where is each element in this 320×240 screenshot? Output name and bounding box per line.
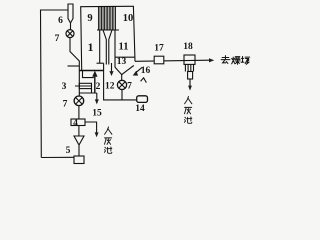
svg-text:11: 11 [119,42,129,53]
svg-text:4: 4 [73,118,78,128]
svg-text:13: 13 [117,57,127,67]
svg-text:14: 14 [135,104,145,114]
svg-text:17: 17 [154,43,164,53]
svg-text:7: 7 [63,99,68,109]
svg-text:18: 18 [183,42,193,52]
svg-text:16: 16 [141,66,151,76]
svg-text:3: 3 [62,82,67,92]
svg-text:6: 6 [58,16,63,26]
svg-text:7: 7 [55,34,60,44]
svg-text:5: 5 [66,146,71,156]
svg-text:10: 10 [123,13,134,24]
svg-text:2: 2 [96,82,101,92]
svg-text:7: 7 [127,81,132,91]
svg-text:15: 15 [92,108,102,118]
svg-text:12: 12 [105,81,115,91]
svg-text:1: 1 [88,40,94,54]
svg-text:9: 9 [87,13,92,24]
